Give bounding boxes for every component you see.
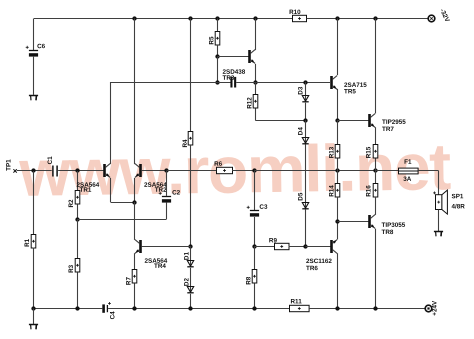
svg-text:2SC1162: 2SC1162 bbox=[306, 258, 332, 265]
wire node to R8 bbox=[254, 246, 256, 269]
transistor TR2 bbox=[135, 164, 142, 178]
capacitor C3 bbox=[247, 206, 259, 217]
svg-text:+24V: +24V bbox=[432, 300, 439, 316]
wire speaker to ground bbox=[438, 210, 440, 232]
resistor R3 bbox=[75, 259, 80, 273]
speaker SP1 bbox=[433, 190, 447, 214]
wire D1 to D2 bbox=[190, 268, 192, 287]
wire corner down to speaker bbox=[438, 171, 440, 195]
wire node to R9 bbox=[254, 246, 274, 248]
wire tail to TR4 collector bbox=[134, 202, 136, 240]
svg-text:4/8R: 4/8R bbox=[451, 203, 465, 210]
junction TR4 base node bbox=[188, 244, 192, 248]
svg-text:R4: R4 bbox=[182, 139, 189, 148]
junction R9 / D5 / TR6 base bbox=[303, 244, 307, 248]
wire TR3 emitter down bbox=[255, 64, 257, 82]
junction TR3 emitter node bbox=[253, 80, 257, 84]
wire C6 to ground bbox=[33, 57, 35, 95]
transistor TR6 bbox=[330, 240, 337, 254]
svg-text:R3: R3 bbox=[68, 264, 75, 273]
capacitor C2 bbox=[159, 192, 171, 203]
svg-text:R10: R10 bbox=[289, 9, 301, 16]
transistor TR7 bbox=[368, 114, 375, 128]
ground below speaker bbox=[434, 232, 443, 237]
wire R5 to TR3 base node bbox=[217, 45, 219, 57]
resistor R8 bbox=[252, 270, 257, 284]
resistor R1 bbox=[31, 235, 36, 249]
resistor R4 bbox=[188, 132, 193, 146]
resistor R15 bbox=[373, 145, 378, 159]
wire TR2 emitter down bbox=[134, 178, 136, 202]
junction output rail / R15 R16 bbox=[373, 168, 377, 172]
svg-text:3A: 3A bbox=[403, 176, 412, 183]
junction C3 / R9 / R8 bbox=[252, 244, 256, 248]
wire bottom rail right bbox=[309, 308, 425, 310]
terminal +24V supply bbox=[425, 305, 432, 312]
wire output rail bbox=[254, 170, 337, 172]
wire top rail to TR5 collector bbox=[337, 19, 339, 76]
svg-text:R11: R11 bbox=[290, 298, 302, 305]
svg-text:C2: C2 bbox=[172, 190, 181, 197]
svg-text:TR5: TR5 bbox=[344, 88, 356, 95]
wire TR3 emitter node to R12 bbox=[255, 82, 257, 95]
resistor R12 bbox=[253, 95, 258, 109]
junction ground rail / R3 bbox=[75, 306, 79, 310]
wire TR1 collector to C5 bbox=[111, 82, 231, 84]
resistor R6 bbox=[217, 167, 233, 173]
junction TR2 base node bbox=[164, 168, 168, 172]
wire R6 to output node bbox=[232, 170, 254, 172]
junction ground rail / R8 bbox=[252, 306, 256, 310]
capacitor C6 bbox=[26, 46, 38, 57]
junction output rail / R13 R14 bbox=[335, 168, 339, 172]
wire TR8 base bbox=[337, 221, 368, 223]
wire D4 to D5 bbox=[305, 144, 307, 202]
svg-text:TR1: TR1 bbox=[79, 187, 91, 194]
resistor R9 bbox=[275, 243, 290, 249]
wire top rail right segment bbox=[307, 18, 429, 20]
svg-text:R15: R15 bbox=[366, 146, 373, 158]
diode D3 bbox=[302, 96, 308, 103]
wire TR1 emitter down bbox=[110, 178, 112, 202]
wire R12 down bbox=[255, 109, 257, 121]
svg-text:D3: D3 bbox=[298, 86, 305, 95]
junction TR3 base node bbox=[215, 54, 219, 58]
wire TR4 base bbox=[142, 246, 191, 248]
svg-text:D2: D2 bbox=[183, 278, 190, 287]
wire R13 to output rail bbox=[337, 159, 339, 172]
junction top rail / TR5 collector bbox=[335, 16, 339, 20]
svg-text:R12: R12 bbox=[246, 97, 253, 109]
wire TR2 base bbox=[142, 170, 167, 172]
wire TR8 emitter down bbox=[375, 229, 377, 309]
wire feedback node to R3 bbox=[77, 219, 79, 259]
wire R15 to output rail bbox=[375, 159, 377, 172]
wire R14 to TR8 base node bbox=[337, 197, 339, 222]
transistor TR3 bbox=[248, 50, 255, 64]
junction feedback node bbox=[75, 217, 79, 221]
wire R2 to feedback node bbox=[77, 204, 79, 219]
svg-text:R13: R13 bbox=[329, 146, 336, 158]
svg-text:R2: R2 bbox=[68, 199, 75, 208]
wire output rail to R16 bbox=[375, 171, 377, 184]
svg-text:R6: R6 bbox=[214, 161, 223, 168]
transistor TR1 bbox=[103, 164, 110, 178]
wire F1 to speaker corner bbox=[418, 170, 439, 172]
resistor R16 bbox=[373, 184, 378, 198]
diode D4 bbox=[302, 138, 308, 145]
junction D3/D4/R12 node bbox=[303, 118, 307, 122]
resistor R14 bbox=[335, 184, 340, 198]
wire y81 to D3 bbox=[305, 82, 307, 96]
junction input node / R1 bbox=[31, 168, 35, 172]
wire R9 to TR6 base node bbox=[289, 246, 306, 248]
junction top rail / R5 bbox=[215, 16, 219, 20]
ground below C6 bbox=[29, 96, 38, 101]
wire top rail left segment bbox=[34, 18, 293, 20]
wire TR4 base node to D1 bbox=[190, 246, 192, 260]
test point TP1 bbox=[13, 169, 16, 172]
svg-text:R8: R8 bbox=[245, 276, 252, 285]
wire R12 to D3 node bbox=[255, 120, 305, 122]
wire TR2 base node to R6 bbox=[167, 170, 217, 172]
transistor TR8 bbox=[368, 215, 375, 229]
svg-text:SP1: SP1 bbox=[451, 193, 463, 200]
junction top rail / TR2 collector bbox=[132, 16, 136, 20]
capacitor C5 bbox=[230, 77, 236, 88]
wire ground rail mid bbox=[108, 308, 289, 310]
wire output rail to F1 bbox=[375, 170, 398, 172]
junction ground rail / R7 bbox=[132, 306, 136, 310]
wire R16 to TR8 collector bbox=[375, 197, 377, 215]
wire R4 to TR4 base node bbox=[190, 145, 192, 246]
resistor R2 bbox=[75, 191, 80, 205]
wire TR3 collector riser bbox=[255, 19, 257, 51]
junction tail node bbox=[132, 200, 136, 204]
wire top rail to C6 bbox=[33, 19, 35, 51]
junction TR1 base / R2 bbox=[75, 168, 79, 172]
junction ground rail / R1 bbox=[31, 306, 35, 310]
wire node to C3 bbox=[254, 171, 256, 210]
junction R6 / C3 node bbox=[252, 168, 256, 172]
svg-text:D5: D5 bbox=[298, 192, 305, 201]
wire R7 to ground rail bbox=[134, 283, 136, 308]
wire TR7 base bbox=[337, 120, 368, 122]
wire TR6 base bbox=[306, 246, 331, 248]
wire R8 to ground rail bbox=[254, 283, 256, 308]
svg-text:C4: C4 bbox=[109, 311, 116, 320]
junction bottom rail / TR8 emitter bbox=[373, 306, 377, 310]
wire output rail to R14 bbox=[337, 171, 339, 184]
wire node to R13 bbox=[337, 120, 339, 145]
svg-text:C1: C1 bbox=[47, 156, 54, 165]
resistor R5 bbox=[215, 32, 220, 46]
wire C2 to feedback line bbox=[166, 203, 168, 220]
wire TR1 base node to R2 bbox=[77, 171, 79, 191]
junction ground rail / D2 bbox=[188, 306, 192, 310]
fuse F1 bbox=[399, 168, 419, 174]
svg-text:R16: R16 bbox=[366, 185, 373, 197]
svg-text:TR4: TR4 bbox=[154, 263, 166, 270]
capacitor C1 bbox=[53, 166, 57, 177]
resistor R10 bbox=[293, 15, 307, 21]
junction y81 / D3 branch bbox=[303, 80, 307, 84]
wire TR3 base bbox=[217, 56, 248, 58]
wire D3 to node bbox=[305, 103, 307, 121]
svg-text:C3: C3 bbox=[259, 204, 268, 211]
svg-text:R9: R9 bbox=[269, 237, 278, 244]
wire C5 to TR5 base bbox=[236, 82, 330, 84]
junction y81 line / R5 node bbox=[215, 80, 219, 84]
wire TR1 collector riser bbox=[110, 82, 112, 164]
wire top rail to R4 bbox=[190, 19, 192, 132]
wire TR6 emitter up bbox=[337, 222, 339, 240]
diode D2 bbox=[187, 287, 193, 294]
wire TP1 to C1 bbox=[17, 170, 52, 172]
wire TR2 collector riser to top rail bbox=[134, 19, 136, 165]
resistor R11 bbox=[290, 305, 310, 311]
wire feedback node to C2 bbox=[78, 219, 167, 221]
svg-text:D1: D1 bbox=[183, 252, 190, 261]
wire C3 to R9 node bbox=[254, 217, 256, 246]
svg-text:TIP2955: TIP2955 bbox=[382, 119, 406, 126]
transistor TR4 bbox=[135, 240, 142, 254]
junction top rail / TR7 collector bbox=[373, 16, 377, 20]
wire TR3 base node down bbox=[217, 57, 219, 82]
svg-text:www.romli.net: www.romli.net bbox=[18, 129, 452, 210]
wire TR7 collector riser bbox=[375, 19, 377, 114]
resistor R13 bbox=[335, 145, 340, 159]
resistor R7 bbox=[132, 270, 137, 284]
wire output rail 2 bbox=[337, 170, 375, 172]
wire R3 to ground rail bbox=[77, 272, 79, 308]
capacitor C4 bbox=[102, 302, 111, 313]
svg-text:TIP3055: TIP3055 bbox=[381, 222, 405, 229]
junction top rail / R4 bbox=[188, 16, 192, 20]
wire TR4 emitter to R7 bbox=[134, 253, 136, 270]
junction bottom rail / TR6 collector bbox=[335, 306, 339, 310]
svg-text:TP1: TP1 bbox=[6, 159, 13, 171]
svg-text:TR7: TR7 bbox=[382, 126, 394, 133]
wire TR7 emitter down bbox=[375, 127, 377, 145]
wire input node to R1 bbox=[33, 171, 35, 234]
wire C1 to TR1 base bbox=[58, 170, 104, 172]
wire R1 to ground rail bbox=[33, 248, 35, 309]
wire ground rail left bbox=[34, 308, 102, 310]
svg-text:TR2: TR2 bbox=[155, 187, 167, 194]
svg-text:TR3: TR3 bbox=[222, 75, 234, 82]
wire D2 to ground rail bbox=[190, 294, 192, 309]
svg-text:R7: R7 bbox=[125, 277, 132, 286]
wire D5 to TR6 base node bbox=[305, 210, 307, 247]
svg-text:D4: D4 bbox=[298, 127, 305, 136]
wire top rail to R5 bbox=[217, 19, 219, 32]
wire TR5 emitter down bbox=[337, 89, 339, 120]
terminal -32V supply bbox=[428, 15, 435, 22]
wire TR2 base node to C2 bbox=[166, 171, 168, 196]
svg-text:R14: R14 bbox=[329, 185, 336, 197]
wire left rail to ground symbol bbox=[33, 309, 35, 324]
transistor TR5 bbox=[330, 76, 337, 90]
diode D5 bbox=[302, 203, 308, 210]
wire TR1 emitter to tail bbox=[111, 202, 136, 204]
svg-text:F1: F1 bbox=[404, 159, 412, 166]
svg-text:TR6: TR6 bbox=[306, 265, 318, 272]
svg-text:R5: R5 bbox=[208, 36, 215, 45]
svg-text:R1: R1 bbox=[24, 238, 31, 247]
ground bottom left bbox=[29, 325, 38, 330]
svg-text:C6: C6 bbox=[37, 43, 46, 50]
diode D1 bbox=[187, 261, 193, 268]
junction TR7 base node bbox=[335, 118, 339, 122]
junction TR8 base node bbox=[335, 219, 339, 223]
svg-text:TR8: TR8 bbox=[381, 229, 393, 236]
junction top rail / TR3 collector bbox=[253, 16, 257, 20]
wire TR6 collector down bbox=[337, 253, 339, 308]
wire node to D4 bbox=[305, 120, 307, 137]
